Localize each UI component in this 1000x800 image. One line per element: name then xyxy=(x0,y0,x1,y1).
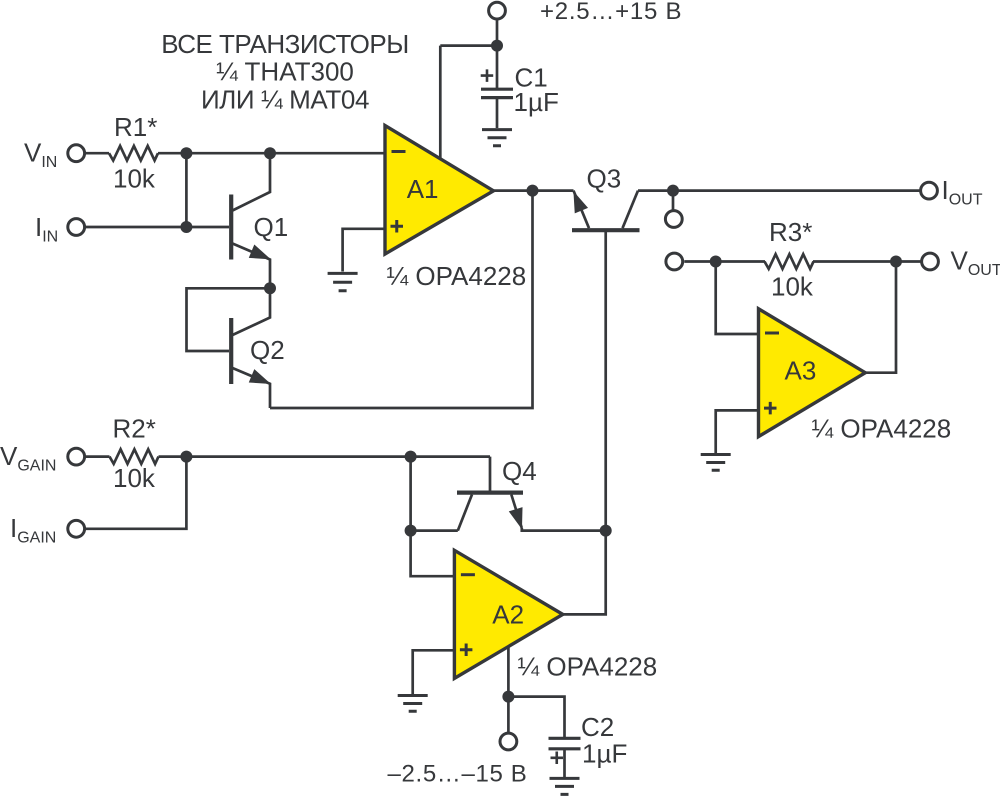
svg-text:Q1: Q1 xyxy=(254,212,289,242)
terminal V_IN xyxy=(68,145,85,162)
svg-text:C2: C2 xyxy=(581,712,614,742)
node dot (R3 left / A3 - input) xyxy=(710,256,722,268)
wire: Q3 collector to I_OUT xyxy=(638,189,920,192)
svg-text:R3*: R3* xyxy=(769,217,812,247)
svg-text:A2: A2 xyxy=(492,600,524,630)
op-amp A1 xyxy=(385,126,494,255)
node dot (Q1 emitter / Q2 collector) xyxy=(264,282,276,294)
node dot (I_OUT node) xyxy=(667,185,679,197)
wire: Q4 left emitter to A2 - node xyxy=(411,529,458,532)
svg-text:VGAIN: VGAIN xyxy=(0,441,56,475)
svg-text:R1*: R1* xyxy=(114,112,157,142)
svg-text:A3: A3 xyxy=(785,356,817,386)
svg-text:10k: 10k xyxy=(113,463,156,493)
node dot (A1 output / Q2 feedback) xyxy=(527,185,539,197)
ground (A1 + input) xyxy=(328,273,358,290)
node dot (R2 / I_GAIN junction) xyxy=(180,451,192,463)
transistor Q4 xyxy=(457,493,523,531)
wire: I_GAIN up to V_GAIN line xyxy=(86,457,186,529)
capacitor C1 xyxy=(481,69,513,128)
svg-text:IGAIN: IGAIN xyxy=(10,513,56,547)
svg-text:A1: A1 xyxy=(407,174,439,204)
svg-text:10k: 10k xyxy=(771,271,814,301)
node dot (V_GAIN line / A2 - branch) xyxy=(405,451,417,463)
wire: V_GAIN main line xyxy=(84,457,490,493)
wire: R3 input line xyxy=(684,260,922,263)
transistor Q3 xyxy=(572,191,640,531)
terminal I_OUT xyxy=(921,182,938,199)
wire: A2 output up to Q3 base node xyxy=(563,531,606,615)
wire: V- node right to C2 xyxy=(508,697,564,738)
svg-text:+2.5…+15 В: +2.5…+15 В xyxy=(540,0,682,25)
op-amp A2 xyxy=(454,550,562,678)
resistor R2 xyxy=(110,449,159,464)
terminal -supply xyxy=(500,733,517,750)
ground (A3 + input) xyxy=(701,455,731,471)
wire: A1 output xyxy=(494,189,574,192)
svg-text:IOUT: IOUT xyxy=(942,175,983,209)
node dot (I_IN / Q1 base) xyxy=(180,221,192,233)
resistor R1 xyxy=(109,146,158,161)
wire: A3 inverting input xyxy=(716,262,759,335)
wire: Q4 right to Q3 base node xyxy=(522,528,606,531)
node dot (Q1 collector on main line) xyxy=(264,147,276,159)
terminal V_OUT xyxy=(922,253,939,270)
node dot (R3 right / A3 output) xyxy=(890,256,902,268)
svg-text:VIN: VIN xyxy=(24,137,57,171)
wire: A3 positive input to ground xyxy=(716,410,759,453)
resistor R3 xyxy=(765,254,814,269)
svg-text:¼ OPA4228: ¼ OPA4228 xyxy=(518,652,658,682)
svg-text:ИЛИ ¼ MAT04: ИЛИ ¼ MAT04 xyxy=(201,85,369,115)
wire: I_IN to Q1 base xyxy=(86,226,229,229)
svg-text:VOUT: VOUT xyxy=(951,246,1000,280)
wire: supply down to C1, left to A1 xyxy=(440,20,497,89)
transistor Q2 (diode connected) xyxy=(187,288,271,408)
svg-text:R2*: R2* xyxy=(113,414,156,444)
transistor Q1 xyxy=(231,153,270,288)
node dot (Q4 right / A2 output / Q3 base) xyxy=(600,525,612,537)
capacitor C2 xyxy=(549,738,581,777)
wire: A2 positive input to ground xyxy=(413,650,455,694)
svg-text:Q4: Q4 xyxy=(502,456,537,486)
svg-text:Q2: Q2 xyxy=(250,335,285,365)
svg-text:IIN: IIN xyxy=(35,212,58,246)
terminal +supply xyxy=(489,2,506,19)
svg-text:–2.5…–15 В: –2.5…–15 В xyxy=(388,761,528,788)
wire: stub down from I_OUT node xyxy=(672,191,675,211)
wire: V_IN main line into A1 inverting input xyxy=(86,152,385,155)
terminal I_GAIN xyxy=(68,520,85,537)
ground (A2 + input) xyxy=(398,696,428,712)
svg-text:¼ THAT300: ¼ THAT300 xyxy=(216,57,354,87)
terminal I_IN xyxy=(68,219,85,236)
wire: A1 positive input to ground xyxy=(343,229,385,272)
ground (C1) xyxy=(482,130,512,146)
wire: stub to -supply terminal xyxy=(507,697,510,734)
node dot (Q4 left / A2 inverting) xyxy=(405,525,417,537)
op-amp A3 xyxy=(759,309,866,437)
wire: vertical joining V_IN and I_IN lines xyxy=(185,153,188,227)
wire: A3 output loop to V_OUT node xyxy=(865,262,896,373)
terminal (open, left of R3) xyxy=(666,253,683,270)
wire: A2 V- supply stem xyxy=(507,647,510,697)
terminal V_GAIN xyxy=(68,448,85,465)
svg-text:Q3: Q3 xyxy=(587,163,622,193)
svg-text:1µF: 1µF xyxy=(514,87,559,117)
terminal (open, below I_OUT node) xyxy=(665,211,682,228)
wire: A2 inverting input xyxy=(411,457,455,577)
svg-text:10k: 10k xyxy=(113,164,156,194)
node dot (R1 / vertical) xyxy=(180,147,192,159)
wire: A1 V+ supply stem xyxy=(439,46,442,159)
svg-text:¼ OPA4228: ¼ OPA4228 xyxy=(387,261,527,291)
wire: Q2 emitter feedback to A1 output xyxy=(270,191,533,408)
node dot (V- supply node) xyxy=(502,691,514,703)
svg-text:1µF: 1µF xyxy=(582,739,627,769)
svg-text:ВСЕ ТРАНЗИСТОРЫ: ВСЕ ТРАНЗИСТОРЫ xyxy=(161,29,409,59)
node dot (supply node) xyxy=(491,40,503,52)
ground (C2) xyxy=(550,778,580,794)
svg-text:¼ OPA4228: ¼ OPA4228 xyxy=(812,414,952,444)
